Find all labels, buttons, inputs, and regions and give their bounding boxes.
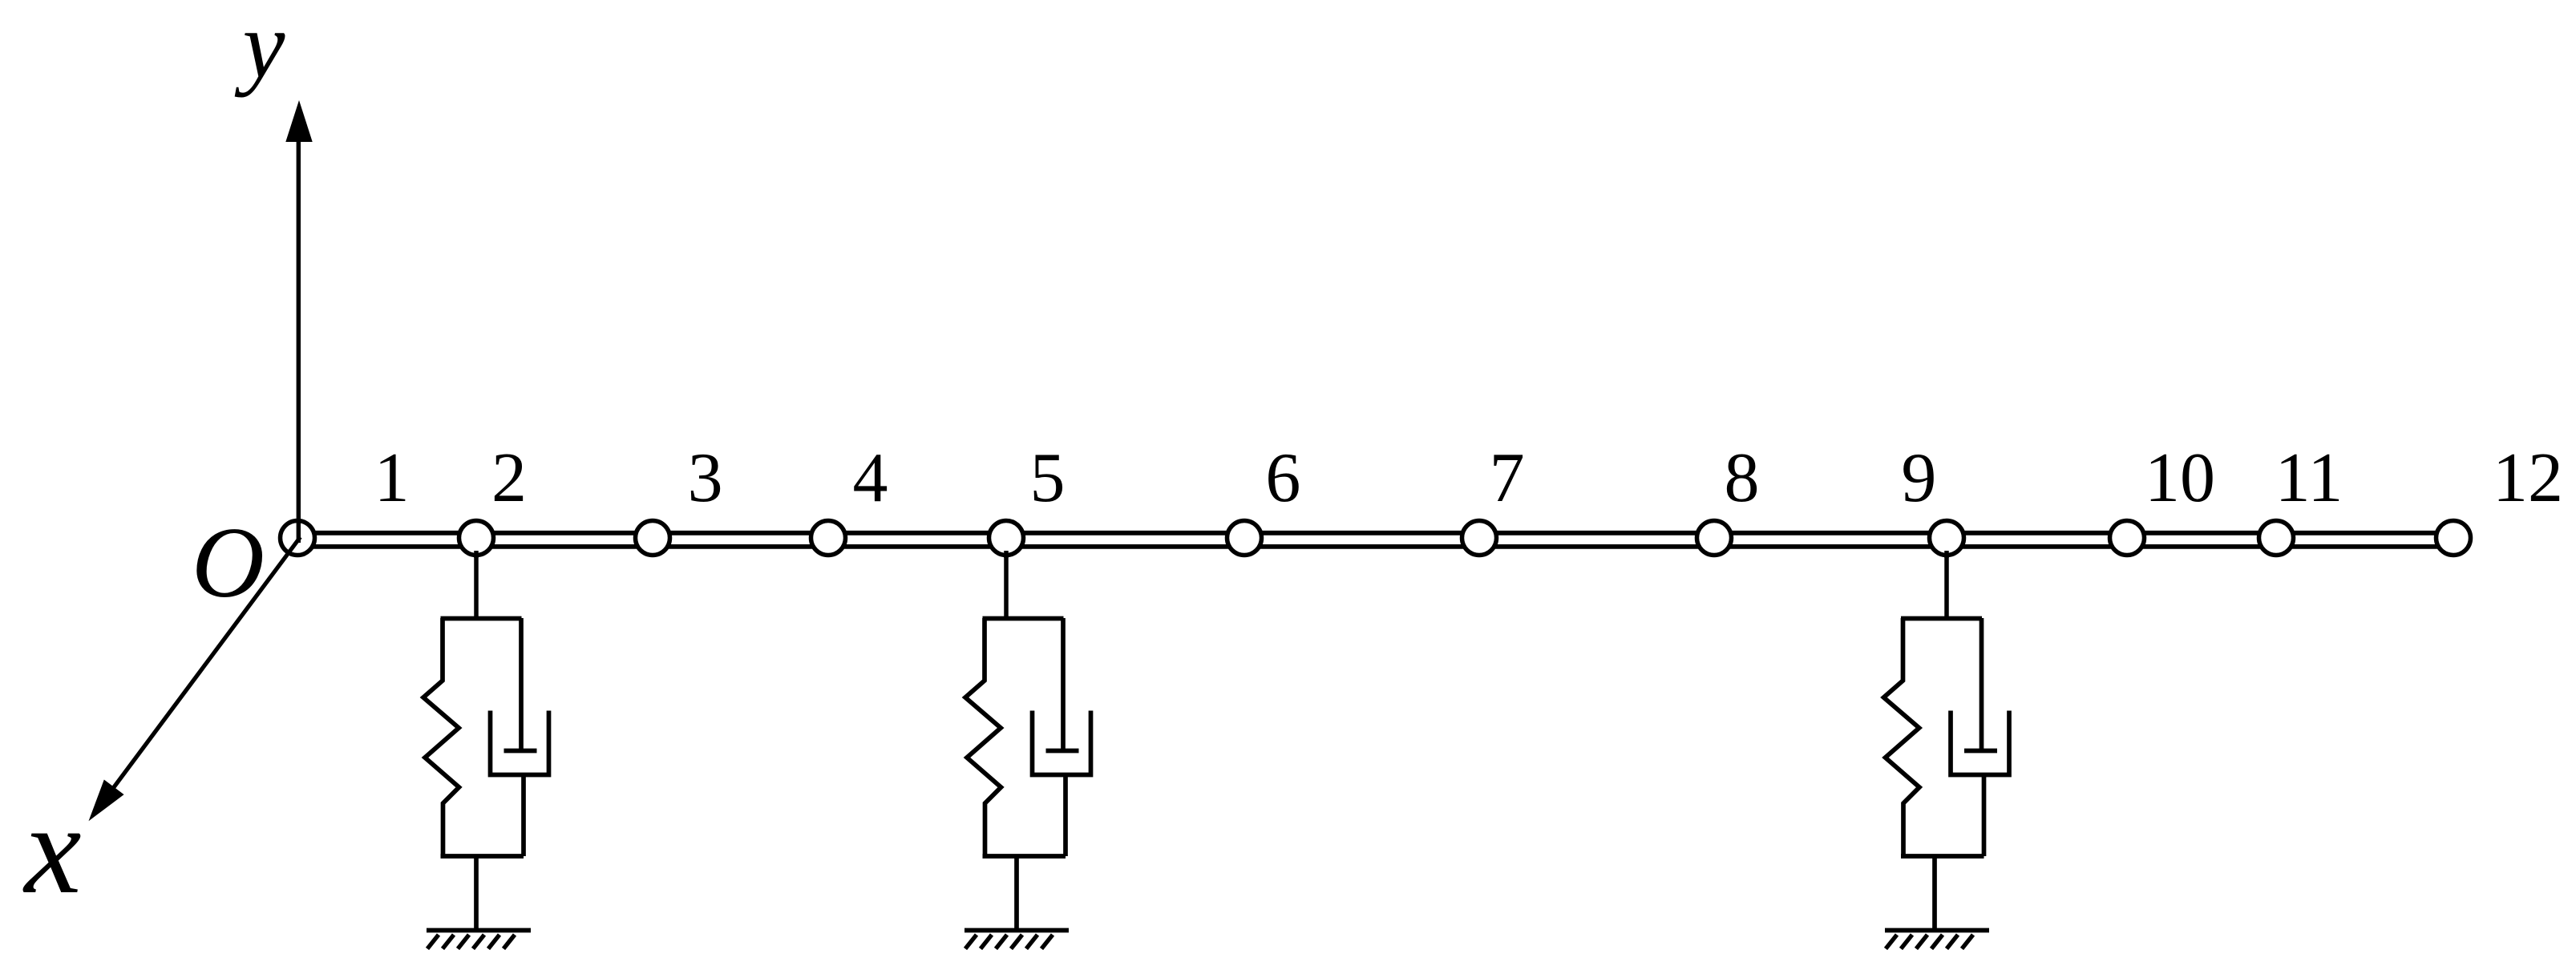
svg-text:x: x [22,778,81,920]
svg-text:11: 11 [2275,439,2343,517]
svg-text:2: 2 [491,439,527,517]
svg-text:3: 3 [688,439,723,517]
svg-text:10: 10 [2145,439,2215,517]
svg-text:4: 4 [853,439,888,517]
svg-text:7: 7 [1490,439,1525,517]
svg-text:1: 1 [374,439,410,517]
svg-text:5: 5 [1030,439,1066,517]
svg-text:y: y [235,0,285,98]
svg-text:12: 12 [2493,439,2563,517]
svg-text:6: 6 [1265,439,1300,517]
svg-text:9: 9 [1901,439,1936,517]
svg-text:O: O [192,507,265,619]
svg-text:8: 8 [1725,439,1760,517]
